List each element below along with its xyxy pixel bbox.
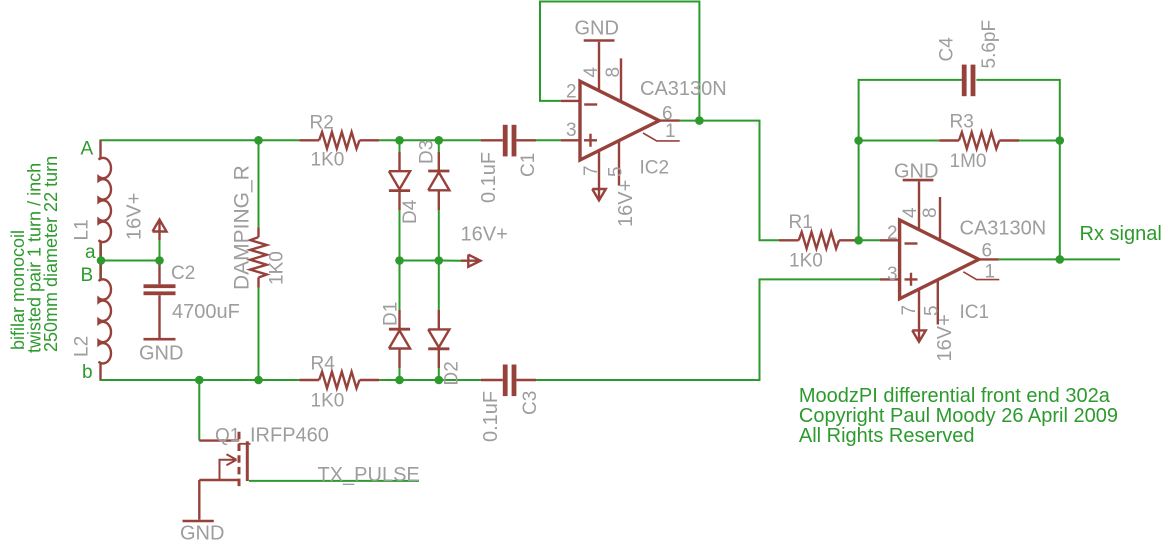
op-amp IC1 pin3 lead (880, 278, 900, 280)
op-amp IC1 pin7 arrow down (912, 330, 926, 341)
op-amp IC2 plus mark (584, 134, 597, 147)
op-amp IC1 pin8 stub (939, 197, 941, 240)
svg-text:R4: R4 (311, 354, 336, 375)
wire C4 right to output riser (976, 80, 1059, 260)
svg-text:b: b (82, 362, 93, 383)
svg-text:1: 1 (665, 121, 676, 142)
inductor L1 with leads (99, 140, 111, 260)
wire top rail A: node A to R2 left (101, 140, 300, 158)
svg-text:16V+: 16V+ (615, 180, 637, 227)
op-amp IC2 GND bar (584, 39, 615, 42)
node junction bottom rail at Q1 (195, 376, 204, 385)
op-amp IC1 pin2 lead (880, 239, 900, 241)
transistor Q1 body arrow (220, 454, 237, 480)
ground symbol below C2 (144, 338, 176, 341)
wire D2 bottom (438, 368, 440, 380)
svg-text:4: 4 (900, 207, 921, 218)
svg-text:250mm diameter 22 turn: 250mm diameter 22 turn (41, 156, 61, 352)
wire node a to C2 top (101, 260, 160, 262)
op-amp IC1 pin6 output lead (979, 258, 999, 260)
wire D4 bottom to mid rail (399, 210, 401, 261)
wire mid rail to 16V+ arrow (400, 260, 462, 262)
transistor Q1 source pin (199, 479, 239, 481)
resistor R1 (799, 232, 839, 249)
wire L1 to L2 through node a,B (100, 243, 102, 280)
wire bottom rail: R4 right to C3 left (379, 379, 481, 381)
svg-text:7: 7 (899, 305, 920, 316)
svg-text:R3: R3 (950, 112, 974, 133)
op-amp IC2 pin7 lead (598, 151, 600, 201)
svg-text:CA3130N: CA3130N (960, 218, 1047, 240)
svg-text:16V+: 16V+ (934, 314, 956, 361)
op-amp IC2 pin6 output lead (659, 119, 679, 121)
svg-text:3: 3 (887, 264, 898, 285)
op-amp IC1 triangle (900, 220, 979, 299)
wire IC1 output Rx signal (999, 258, 1121, 260)
op-amp IC2 minus mark (584, 103, 597, 105)
svg-text:IC2: IC2 (640, 158, 670, 179)
op-amp IC1 pin1 stub (963, 272, 999, 280)
svg-text:IRFP460: IRFP460 (250, 425, 329, 447)
node junction R1 to IC1 pin2 (854, 236, 863, 245)
node junction a at L1/L2 tap (97, 256, 106, 265)
svg-text:1K0: 1K0 (311, 150, 345, 171)
resistor R1 leads (779, 239, 859, 241)
capacitor C4 plates (962, 65, 976, 97)
wire D2 top lead (438, 261, 440, 311)
svg-text:D1: D1 (381, 302, 402, 326)
svg-text:8: 8 (603, 67, 624, 78)
op-amp IC2 triangle (580, 81, 659, 160)
svg-text:1: 1 (985, 262, 996, 283)
svg-text:4700uF: 4700uF (172, 301, 240, 323)
svg-text:1K0: 1K0 (267, 251, 288, 285)
op-amp IC1 GND bar (903, 179, 934, 182)
svg-text:7: 7 (581, 165, 602, 176)
transistor Q1 channel dashed (238, 432, 241, 490)
svg-text:5.6pF: 5.6pF (979, 20, 1000, 69)
op-amp IC2 pin2 lead (561, 100, 580, 102)
svg-text:Q1: Q1 (215, 426, 240, 447)
svg-text:IC1: IC1 (960, 302, 990, 323)
wire D3 bottom to mid rail (438, 210, 440, 261)
supply 16V+ arrow above C2 (153, 220, 167, 241)
node junction R3 left (854, 136, 863, 145)
svg-text:All Rights Reserved: All Rights Reserved (799, 425, 975, 447)
op-amp IC1 pin7 lead (918, 289, 920, 342)
node junction IC2 output (695, 116, 704, 125)
capacitor C2 top lead (158, 261, 160, 285)
op-amp IC1 minus mark (905, 242, 918, 244)
node junction mid rail at D3 (435, 256, 444, 265)
op-amp IC2 pin7 arrow down (592, 189, 606, 200)
svg-text:D2: D2 (442, 361, 463, 385)
svg-text:CA3130N: CA3130N (640, 78, 727, 100)
wire TX_PULSE gate (249, 480, 419, 482)
diode D3 cathode bar (428, 170, 449, 173)
resistor R3 (959, 132, 999, 149)
svg-text:Rx signal: Rx signal (1080, 223, 1162, 245)
svg-text:B: B (81, 265, 94, 286)
node junction top rail at D3 (435, 136, 444, 145)
wire D1 bottom (399, 368, 401, 380)
svg-text:D3: D3 (417, 140, 438, 164)
diode D4 pointing down, cathode bar bottom (389, 152, 410, 210)
node junction bottom rail at DAMPING_R (254, 376, 263, 385)
svg-text:8: 8 (920, 207, 941, 218)
node junction R3 right (1056, 136, 1065, 145)
node junction at C2 top (155, 256, 164, 265)
svg-text:GND: GND (180, 523, 224, 545)
svg-text:D4: D4 (400, 199, 421, 224)
svg-text:1K0: 1K0 (311, 391, 345, 412)
wire DAMPING_R bottom (258, 288, 260, 381)
svg-text:R1: R1 (789, 212, 813, 233)
transistor Q1 source to ground lead (198, 480, 200, 520)
wire Q1 drain from bottom rail (198, 380, 200, 441)
svg-text:3: 3 (566, 120, 577, 141)
wire D3 top lead (438, 140, 440, 152)
svg-text:GND: GND (139, 343, 183, 365)
resistor R4 leads (299, 379, 379, 381)
svg-text:TX_PULSE: TX_PULSE (318, 464, 420, 486)
diode D3 pointing up, cathode bar top (428, 152, 449, 210)
resistor R2 leads (299, 139, 379, 141)
svg-text:DAMPING_R: DAMPING_R (231, 165, 254, 290)
svg-text:1K0: 1K0 (789, 251, 823, 272)
svg-text:A: A (81, 139, 94, 160)
wire top rail: R2 right to C1 left (379, 139, 481, 141)
capacitor C1 plates (503, 125, 517, 157)
transistor Q1 gate top stub (239, 443, 251, 445)
wire D4 top lead (399, 140, 401, 152)
capacitor C2 bottom lead (158, 295, 160, 338)
diode D1 cathode bar (389, 328, 410, 331)
wire R3 left lead wire (859, 140, 940, 142)
transistor Q1 drain pin (199, 439, 239, 441)
resistor DAMPING_R leads (257, 227, 259, 287)
wire R3 right to output riser (1019, 140, 1060, 142)
svg-text:MoodzPI differential front end: MoodzPI differential front end 302a (799, 385, 1111, 407)
wire bottom rail: C3 right to IC1 pin3 riser (536, 279, 880, 380)
svg-text:16V+: 16V+ (461, 224, 508, 246)
node junction top rail at D4 (395, 136, 404, 145)
svg-text:1M0: 1M0 (950, 151, 987, 172)
svg-text:0.1uF: 0.1uF (478, 152, 500, 203)
svg-text:a: a (85, 242, 96, 263)
svg-text:2: 2 (887, 223, 898, 244)
op-amp IC2 pin4 lead to GND (598, 42, 600, 91)
inductor L2 with leads (99, 261, 111, 381)
node junction bottom rail at D2 (435, 376, 444, 385)
op-amp IC1 pin5 stub (937, 280, 939, 325)
resistor R3 leads (939, 139, 1019, 141)
diode D4 cathode bar (389, 189, 410, 192)
svg-text:C2: C2 (171, 263, 195, 284)
node junction IC1 output Rx (1056, 255, 1065, 264)
svg-text:0.1uF: 0.1uF (480, 391, 502, 442)
wire IC2 output to R1 (679, 121, 780, 241)
svg-text:L1: L1 (72, 219, 93, 240)
svg-text:2: 2 (566, 82, 577, 103)
wire top rail: C1 right to IC2 pin3 (536, 139, 561, 141)
svg-text:GND: GND (894, 161, 938, 183)
capacitor C3 leads (481, 379, 536, 381)
wire DAMPING_R top (258, 140, 260, 227)
svg-text:L2: L2 (72, 336, 93, 357)
capacitor C2 polarized plates (144, 284, 176, 295)
ground symbol below Q1 (183, 520, 214, 523)
svg-text:C4: C4 (937, 37, 958, 62)
op-amp IC2 pin8 stub (620, 58, 622, 101)
diode D2 pointing down, cathode bar bottom (428, 310, 449, 368)
svg-text:R2: R2 (310, 113, 334, 134)
node junction mid rail at D4 (395, 256, 404, 265)
svg-text:4: 4 (581, 67, 602, 78)
wire IC2 feedback loop (540, 2, 699, 121)
diode D1 pointing up, cathode bar top (389, 310, 410, 368)
op-amp IC1 plus mark (905, 273, 918, 286)
op-amp IC2 pin1 stub (643, 133, 680, 141)
svg-text:Copyright Paul Moody 26 April: Copyright Paul Moody 26 April 2009 (799, 405, 1118, 427)
capacitor C1 leads (481, 139, 536, 141)
svg-text:GND: GND (575, 18, 619, 40)
node junction top rail at DAMPING_R (254, 136, 263, 145)
op-amp IC1 pin4 lead to GND (918, 182, 920, 230)
wire R1 right to IC1 pin2 (859, 239, 880, 241)
capacitor C3 plates (503, 365, 517, 397)
svg-text:6: 6 (982, 241, 993, 262)
supply 16V+ arrow right at mid rail (461, 255, 481, 267)
wire node b bottom rail: L2 to R4 (101, 364, 300, 380)
node junction bottom rail at D1 (395, 376, 404, 385)
resistor R4 (319, 372, 359, 389)
svg-text:C3: C3 (520, 391, 541, 415)
svg-text:C1: C1 (518, 153, 539, 177)
resistor R2 (319, 132, 359, 149)
wire IC1 feedback riser left (859, 80, 962, 240)
transistor Q1 gate bar (246, 441, 249, 481)
op-amp IC2 pin3 lead (561, 139, 580, 141)
resistor DAMPING_R (250, 237, 267, 277)
wire D1 top lead (399, 261, 401, 311)
wire 16V+ supply above C2 (159, 240, 161, 261)
diode D2 cathode bar (428, 347, 449, 350)
svg-text:5: 5 (606, 166, 627, 177)
svg-text:16V+: 16V+ (124, 193, 146, 240)
op-amp IC2 pin5 stub (618, 141, 620, 186)
